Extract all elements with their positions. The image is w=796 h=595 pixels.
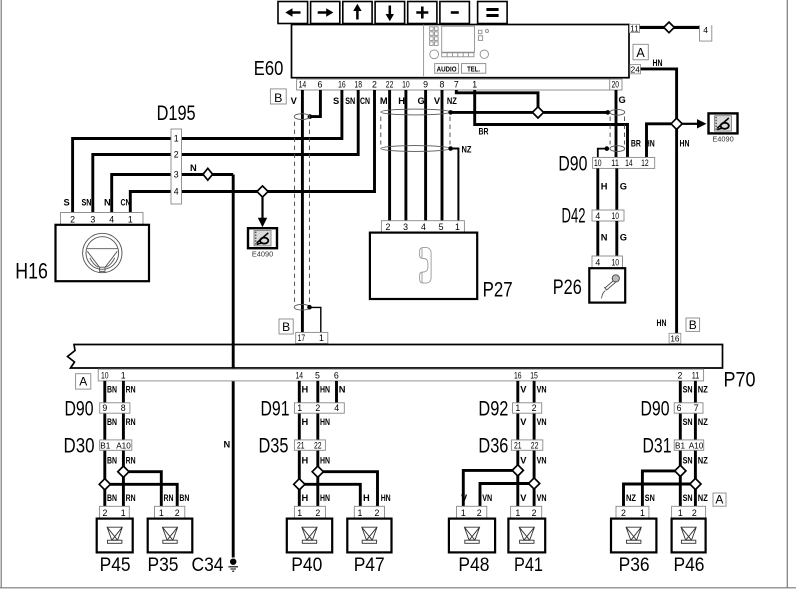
svg-text:1: 1: [128, 214, 133, 224]
svg-text:B1: B1: [100, 441, 110, 450]
P45 pin strip: [100, 506, 130, 518]
svg-text:16: 16: [514, 371, 522, 381]
svg-text:18: 18: [354, 79, 362, 89]
svg-text:BN: BN: [179, 493, 189, 503]
svg-text:NZ: NZ: [626, 493, 636, 503]
wire G D42 to P26: [615, 221, 618, 256]
svg-text:N: N: [104, 198, 111, 208]
wire SN from E60 pin18 to D195 pin2: [182, 90, 359, 155]
button left-arrow: [278, 2, 308, 24]
G shield drain to D90 pin10: [605, 146, 610, 151]
wire M to P27: [388, 90, 391, 221]
svg-text:C34: C34: [192, 555, 224, 576]
svg-text:VN: VN: [537, 417, 547, 427]
svg-text:N: N: [224, 440, 231, 450]
svg-text:V: V: [461, 493, 468, 503]
svg-text:BN: BN: [107, 417, 117, 427]
svg-text:2: 2: [532, 403, 537, 413]
P46 pin strip: [672, 506, 706, 518]
svg-text:RN: RN: [126, 385, 136, 395]
svg-text:4: 4: [421, 222, 426, 232]
svg-text:H: H: [398, 96, 405, 106]
P36 pin strip: [616, 506, 649, 518]
svg-text:10: 10: [402, 79, 410, 89]
svg-text:1: 1: [121, 371, 126, 381]
wire H group2: [298, 381, 301, 506]
connector strip D92: [513, 403, 542, 413]
pin 11 (E60 connector A): [629, 24, 639, 32]
svg-text:2: 2: [678, 371, 683, 381]
svg-text:SN: SN: [345, 96, 355, 106]
svg-text:2: 2: [102, 508, 107, 518]
other-sheet icon E4090 right: [709, 113, 738, 133]
svg-text:N: N: [339, 385, 346, 395]
svg-text:B: B: [689, 318, 697, 332]
microphone icon: [602, 275, 620, 299]
connector strip D36: [511, 440, 542, 450]
svg-text:VN: VN: [537, 493, 547, 503]
svg-text:BN: BN: [107, 385, 117, 395]
wire pin11 to fuse ref: [640, 26, 700, 29]
svg-text:M: M: [380, 96, 388, 106]
splice on pin11 wire: [664, 22, 675, 33]
svg-text:1: 1: [515, 403, 520, 413]
svg-text:P26: P26: [553, 276, 582, 299]
svg-text:D91: D91: [261, 398, 290, 421]
svg-text:BR: BR: [631, 139, 641, 149]
svg-text:P47: P47: [354, 555, 385, 576]
svg-text:CN: CN: [360, 96, 370, 106]
splice on CN wire: [257, 186, 268, 197]
svg-text:S: S: [333, 96, 339, 106]
svg-text:16: 16: [338, 79, 346, 89]
button down-arrow: [375, 2, 405, 24]
svg-text:HN: HN: [680, 139, 690, 149]
svg-text:E4090: E4090: [712, 135, 733, 144]
shield junction dot bottom: [307, 305, 312, 310]
wire G from E60 pin20: [615, 90, 618, 157]
svg-text:B1: B1: [675, 441, 685, 450]
svg-text:3: 3: [90, 214, 95, 224]
svg-text:A: A: [715, 493, 723, 507]
P41 pin strip: [511, 506, 542, 518]
button up-arrow: [343, 2, 372, 24]
svg-text:22: 22: [314, 440, 322, 450]
amplifier P70 band: [68, 345, 723, 369]
loudspeaker P46: [672, 519, 706, 553]
svg-text:V: V: [520, 455, 527, 465]
svg-text:NZ: NZ: [698, 493, 708, 503]
svg-text:HN: HN: [645, 139, 655, 149]
svg-text:22: 22: [531, 440, 539, 450]
loudspeaker P35: [148, 519, 193, 553]
loudspeaker P41: [508, 519, 545, 553]
svg-text:4: 4: [109, 214, 114, 224]
svg-text:P46: P46: [674, 555, 705, 576]
P26 pin strip: [592, 256, 623, 268]
connector strip D90 group1: [100, 403, 130, 413]
wire VN group3: [533, 381, 536, 506]
loudspeaker P36: [611, 519, 656, 553]
svg-text:1: 1: [319, 333, 324, 343]
cable shield left pair: [294, 114, 310, 120]
button right-arrow: [311, 2, 340, 24]
svg-text:SN: SN: [683, 417, 693, 427]
svg-text:12: 12: [641, 158, 649, 168]
connector B tag: [270, 89, 286, 104]
wire BN group1: [103, 381, 106, 506]
svg-text:1: 1: [640, 508, 645, 518]
svg-text:1: 1: [121, 508, 126, 518]
svg-text:2: 2: [374, 508, 379, 518]
arrow to E4090 right: [682, 123, 697, 125]
splice SN group4: [675, 465, 686, 476]
svg-text:P40: P40: [291, 555, 322, 576]
svg-text:4: 4: [595, 211, 600, 221]
wire N from D195 pin3: [182, 173, 234, 176]
svg-text:1: 1: [455, 222, 460, 232]
connector strip D42: [592, 210, 624, 221]
svg-text:15: 15: [530, 371, 538, 381]
wire SN group4: [679, 381, 682, 506]
loudspeaker P40: [287, 519, 332, 553]
svg-text:6: 6: [677, 403, 682, 413]
wire HN from pin 24: [641, 69, 677, 333]
svg-text:14: 14: [299, 79, 307, 89]
svg-text:H: H: [302, 493, 309, 503]
wire G D90 to D42: [615, 168, 618, 210]
D195 to H16 wire 2: [93, 155, 171, 213]
wire V to P27: [441, 90, 444, 221]
svg-text:11: 11: [630, 24, 639, 33]
svg-text:6: 6: [317, 79, 322, 89]
svg-text:E60: E60: [254, 58, 283, 80]
svg-text:SN: SN: [683, 385, 693, 395]
G cable shield: [610, 109, 625, 115]
svg-text:3: 3: [174, 170, 179, 180]
svg-text:HN: HN: [657, 318, 667, 328]
svg-text:D195: D195: [157, 102, 196, 125]
svg-text:SN: SN: [683, 493, 693, 503]
svg-text:H: H: [302, 417, 309, 427]
svg-text:4: 4: [703, 25, 708, 35]
svg-text:NZ: NZ: [447, 96, 457, 106]
connector strip D31: [674, 440, 704, 450]
svg-text:1: 1: [515, 508, 520, 518]
svg-text:VN: VN: [482, 493, 492, 503]
svg-text:CN: CN: [121, 198, 131, 208]
svg-text:B: B: [274, 91, 282, 105]
svg-text:BN: BN: [107, 493, 117, 503]
svg-text:SN: SN: [683, 455, 693, 465]
svg-text:HN: HN: [320, 385, 330, 395]
svg-text:D92: D92: [478, 398, 508, 421]
svg-text:24: 24: [631, 65, 641, 74]
wire NZ group4: [694, 381, 697, 506]
P48 pin strip: [457, 506, 487, 518]
svg-text:G: G: [619, 95, 626, 105]
connector strip D90 group4: [674, 403, 703, 413]
svg-text:TEL.: TEL.: [467, 64, 480, 73]
wire HN group2: [316, 381, 319, 506]
svg-text:16: 16: [670, 334, 680, 343]
steering wheel icon: [83, 233, 122, 272]
svg-text:1: 1: [297, 508, 302, 518]
svg-text:P45: P45: [100, 555, 131, 576]
svg-text:21: 21: [297, 440, 305, 450]
svg-text:G: G: [620, 181, 627, 191]
svg-text:10: 10: [101, 371, 109, 381]
svg-text:21: 21: [514, 440, 522, 450]
splice NZ: [532, 107, 543, 118]
svg-text:8: 8: [439, 79, 444, 89]
NZ link dots: [448, 110, 453, 115]
svg-text:5: 5: [439, 222, 444, 232]
wire BR from E60 pin1: [475, 90, 628, 157]
svg-text:H: H: [601, 181, 608, 191]
shield junction dot top: [308, 114, 313, 119]
wire N down to ground C34: [232, 175, 235, 558]
svg-text:VN: VN: [537, 455, 547, 465]
steering wheel control H16 box: [56, 225, 150, 281]
svg-text:V: V: [291, 96, 298, 106]
svg-text:NZ: NZ: [698, 417, 708, 427]
wire S from E60 pin16 to D195 pin1: [182, 90, 342, 139]
svg-text:4: 4: [595, 258, 600, 268]
microphone P26 box: [589, 268, 625, 302]
splice HN: [671, 118, 682, 129]
svg-text:NZ: NZ: [698, 455, 708, 465]
svg-text:P48: P48: [458, 555, 489, 576]
svg-text:N: N: [190, 163, 197, 173]
branch NZ to P36 pin2: [624, 484, 696, 506]
svg-text:D42: D42: [562, 204, 586, 227]
svg-text:HN: HN: [320, 455, 330, 465]
wire RN group1: [122, 381, 125, 506]
svg-text:RN: RN: [126, 417, 136, 427]
svg-text:BR: BR: [479, 126, 489, 136]
svg-text:AUDIO: AUDIO: [437, 64, 457, 73]
button plus: [408, 2, 437, 24]
loudspeaker P47: [347, 519, 391, 553]
wire N D42 to P26: [596, 221, 599, 256]
svg-text:RN: RN: [126, 455, 136, 465]
HN branch to D90 pin 12: [647, 124, 672, 158]
svg-text:V: V: [520, 493, 527, 503]
svg-text:2: 2: [621, 508, 626, 518]
svg-text:1: 1: [678, 508, 683, 518]
branch V to P48 pin1: [463, 470, 518, 506]
P27 pin strip: [381, 221, 464, 232]
svg-text:D31: D31: [643, 435, 672, 458]
loudspeaker P48: [449, 519, 495, 553]
svg-text:A: A: [636, 46, 645, 60]
svg-text:2: 2: [372, 79, 377, 89]
TEL key label: [462, 64, 486, 74]
svg-text:1: 1: [461, 508, 466, 518]
svg-text:2: 2: [477, 508, 482, 518]
wire from E60 pin6 to cable shield: [312, 90, 321, 117]
button equals: [478, 2, 508, 24]
svg-text:SN: SN: [82, 198, 92, 208]
svg-text:8: 8: [121, 403, 126, 413]
svg-text:NZ: NZ: [698, 385, 708, 395]
connector A tag bottom right: [713, 493, 726, 506]
NZ shield link wire: [451, 111, 608, 114]
svg-text:2: 2: [175, 508, 180, 518]
connector B 17/1 strip: [296, 332, 328, 343]
D195 to H16 wire 1: [73, 139, 171, 213]
wire CN from E60 pin2 to D195 pin4: [182, 90, 375, 192]
svg-text:2: 2: [386, 222, 391, 232]
svg-text:14: 14: [625, 158, 633, 168]
branch arrow to E4090 left: [261, 197, 263, 218]
svg-text:P35: P35: [148, 555, 179, 576]
svg-text:D90: D90: [558, 153, 587, 176]
wire V from E60 pin14: [301, 90, 304, 332]
connector A tag bottom left: [76, 374, 91, 389]
svg-text:BN: BN: [107, 455, 117, 465]
svg-text:1: 1: [174, 134, 179, 144]
branch H to P47 pin1: [299, 484, 360, 506]
svg-text:1: 1: [358, 508, 363, 518]
wire H to P27: [404, 90, 407, 221]
fuse reference 4: [700, 25, 712, 41]
D195 to H16 wire 3: [112, 175, 171, 213]
svg-text:2: 2: [70, 214, 75, 224]
pin 16 box: [669, 333, 681, 343]
svg-text:D36: D36: [478, 435, 508, 458]
svg-text:D35: D35: [259, 435, 289, 458]
branch RN to P35 pin1: [123, 472, 161, 507]
svg-text:7: 7: [694, 403, 699, 413]
svg-text:6: 6: [334, 371, 339, 381]
svg-text:V: V: [520, 417, 527, 427]
svg-text:20: 20: [612, 79, 620, 89]
connector B tag bottom left: [279, 319, 293, 334]
wire G to P27: [424, 90, 427, 221]
pin 24 (E60 connector A): [630, 65, 641, 74]
svg-text:14: 14: [296, 371, 304, 381]
svg-text:H16: H16: [15, 259, 48, 284]
svg-text:3: 3: [403, 222, 408, 232]
D195 to H16 wire 4: [130, 192, 171, 213]
connector strip D91: [294, 403, 344, 413]
connector strip D35: [294, 440, 325, 450]
shield drain to connector B pin1: [310, 307, 321, 332]
svg-text:S: S: [64, 198, 70, 208]
splice VN group3: [529, 478, 540, 489]
svg-text:9: 9: [423, 79, 428, 89]
svg-text:HN: HN: [653, 58, 663, 68]
splice HN group2: [312, 466, 323, 477]
connector B tag bottom right: [686, 318, 700, 331]
branch VN to P48 pin2: [480, 484, 534, 507]
svg-text:9: 9: [102, 403, 107, 413]
svg-text:4: 4: [334, 403, 339, 413]
ground C34: [230, 559, 236, 565]
other-sheet icon E4090 left: [248, 228, 277, 248]
splice V group3: [512, 465, 523, 476]
svg-text:G: G: [418, 96, 425, 106]
svg-text:D90: D90: [641, 398, 670, 421]
splice H group2: [294, 479, 305, 490]
svg-text:2: 2: [315, 403, 320, 413]
E60 radio face icon: [424, 25, 489, 77]
shield drain to P27 pin1: [448, 146, 453, 151]
svg-text:2: 2: [532, 508, 537, 518]
svg-text:VN: VN: [537, 385, 547, 395]
svg-text:A10: A10: [689, 441, 704, 450]
svg-text:RN: RN: [126, 493, 136, 503]
svg-text:H: H: [302, 455, 309, 465]
wire H D90 to D42: [596, 168, 599, 210]
svg-text:1: 1: [159, 508, 164, 518]
svg-text:22: 22: [386, 79, 394, 89]
telephone P27 box: [370, 233, 477, 299]
E60 connector B pin strip: [297, 79, 622, 90]
svg-text:A10: A10: [116, 441, 131, 450]
connector strip D195: [171, 129, 182, 204]
connector strip D30: [100, 440, 132, 450]
svg-text:10: 10: [594, 158, 602, 168]
loudspeaker P45: [97, 519, 133, 553]
svg-text:P27: P27: [483, 279, 513, 302]
svg-text:H: H: [363, 493, 370, 503]
svg-text:1: 1: [472, 79, 477, 89]
svg-text:B: B: [282, 320, 290, 334]
svg-text:4: 4: [174, 187, 179, 197]
P40 pin strip: [294, 506, 325, 518]
svg-text:11: 11: [611, 158, 619, 168]
branch HN to P47 pin2: [318, 472, 378, 507]
branch BN to P35 pin2: [105, 484, 177, 506]
svg-text:2: 2: [174, 150, 179, 160]
svg-text:HN: HN: [320, 417, 330, 427]
control unit E60 box: [292, 25, 630, 78]
svg-text:V: V: [434, 96, 441, 106]
svg-text:V: V: [520, 385, 527, 395]
svg-text:N: N: [601, 232, 608, 242]
svg-text:1: 1: [297, 403, 302, 413]
svg-text:RN: RN: [164, 493, 174, 503]
svg-text:G: G: [620, 232, 627, 242]
H16 pin strip: [61, 213, 144, 225]
P35 pin strip: [155, 506, 185, 518]
P47 pin strip: [354, 506, 384, 518]
connector strip D90: [593, 157, 655, 168]
button minus: [440, 2, 470, 24]
svg-text:HN: HN: [320, 493, 330, 503]
svg-text:2: 2: [692, 508, 697, 518]
svg-text:SN: SN: [645, 493, 655, 503]
P70 pin strip: [98, 369, 703, 381]
svg-text:NZ: NZ: [462, 144, 472, 154]
svg-text:P70: P70: [724, 369, 756, 392]
wire N stub group2: [335, 381, 338, 403]
svg-text:2: 2: [315, 508, 320, 518]
svg-text:10: 10: [612, 258, 620, 268]
svg-text:A: A: [79, 375, 87, 389]
svg-text:H: H: [302, 385, 309, 395]
phone cable shield: [381, 109, 450, 115]
connector A tag: [633, 44, 648, 60]
AUDIO key label: [435, 64, 459, 74]
svg-text:D30: D30: [64, 435, 95, 458]
branch SN to P36 pin1: [642, 471, 680, 506]
telephone handset icon: [420, 247, 432, 283]
svg-text:P41: P41: [514, 555, 543, 576]
